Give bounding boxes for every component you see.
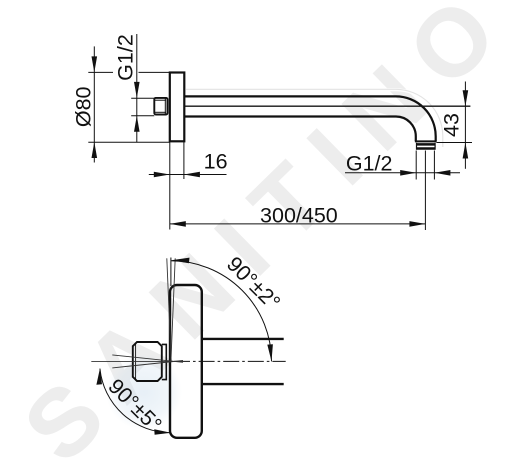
arc ±2° right arrow (points down) bbox=[267, 344, 273, 361]
arc ±2° top arrow (points left) bbox=[171, 258, 189, 264]
arm tube (top view) top edge bbox=[202, 338, 284, 340]
dim 16: left arrowhead bbox=[154, 172, 170, 178]
tolerance fan line -5° bbox=[112, 355, 183, 362]
dim G1/2 top: extension lines bbox=[131, 97, 154, 99]
outlet shoulder bbox=[415, 140, 437, 142]
arm outer halo (faint ghost contour) bbox=[186, 90, 442, 147]
nipple axis line bbox=[91, 360, 183, 362]
dim G1/2 top: lower arrowhead bbox=[134, 116, 140, 132]
dim Ø80: top extension line bbox=[88, 71, 113, 73]
dim G1/2 top: upper arrowhead bbox=[134, 82, 140, 98]
tolerance fan line +5° bbox=[112, 361, 183, 368]
arrowheads bottom figure bbox=[96, 258, 273, 435]
svg-text:300/450: 300/450 bbox=[260, 203, 338, 227]
arm tube (top view) bottom edge bbox=[202, 383, 284, 385]
dim 43: dimension line bbox=[464, 82, 466, 169]
dim G1/2 top: dimension line bbox=[136, 34, 138, 142]
nipple (top view) bbox=[133, 342, 162, 381]
watermark blue blob bbox=[0, 0, 1, 1]
dim G1/2 outlet: left arrowhead bbox=[400, 170, 416, 176]
dim 300/450: right arrowhead bbox=[409, 221, 425, 227]
arrowheads top figure bbox=[92, 56, 469, 226]
arc ±5° bottom arrow (points right) bbox=[154, 429, 171, 435]
nipple collar bbox=[162, 344, 167, 379]
dim 16: right arrowhead bbox=[184, 172, 200, 178]
connector nipple G1/2 (side view) bbox=[154, 98, 167, 115]
svg-text:Ø80: Ø80 bbox=[72, 86, 96, 127]
tolerance fan line -2° bbox=[167, 258, 171, 361]
svg-text:16: 16 bbox=[204, 150, 228, 174]
dim Ø80: upper arrowhead bbox=[92, 56, 98, 72]
dim 300/450: left arrowhead bbox=[170, 221, 186, 227]
outlet thread bbox=[416, 143, 435, 146]
arc ±5° top arrow (points up) bbox=[96, 369, 102, 385]
vertical reference line bbox=[170, 258, 172, 287]
tolerance fan line +2° bbox=[171, 258, 175, 361]
shower arm tube: top contour with bend bbox=[184, 96, 435, 141]
wall flange (side view) bbox=[170, 73, 185, 142]
dim 16: extension lines bbox=[169, 142, 171, 230]
dim 300/450: dimension line bbox=[170, 223, 426, 225]
dim Ø80: lower arrowhead bbox=[92, 142, 98, 158]
dim G1/2 outlet: right arrowhead bbox=[434, 170, 450, 176]
wall flange (top view) bbox=[170, 285, 202, 438]
svg-text:43: 43 bbox=[439, 113, 463, 137]
shower arm tube: bottom contour with inner bend bbox=[184, 117, 415, 142]
dim 43: upper arrowhead bbox=[463, 90, 469, 106]
arm centerline (thin) bbox=[184, 105, 470, 107]
dim G1/2 bottom: dimension line bbox=[345, 172, 460, 174]
dim Ø80: dimension line bbox=[93, 46, 95, 162]
svg-text:G1/2: G1/2 bbox=[113, 34, 137, 81]
arc 90°±2° bbox=[171, 261, 272, 362]
dim G1/2 bottom: extension lines bbox=[415, 151, 417, 180]
arm centerline dash-dot bbox=[174, 360, 286, 362]
dim 43: lower arrowhead bbox=[463, 143, 469, 159]
dim 16: dimension line bbox=[149, 174, 227, 176]
dim 43: extension lines bbox=[437, 142, 473, 144]
arc 90°±5° bbox=[100, 369, 171, 433]
dim Ø80: bottom extension line bbox=[88, 141, 170, 143]
svg-text:G1/2: G1/2 bbox=[346, 151, 393, 175]
